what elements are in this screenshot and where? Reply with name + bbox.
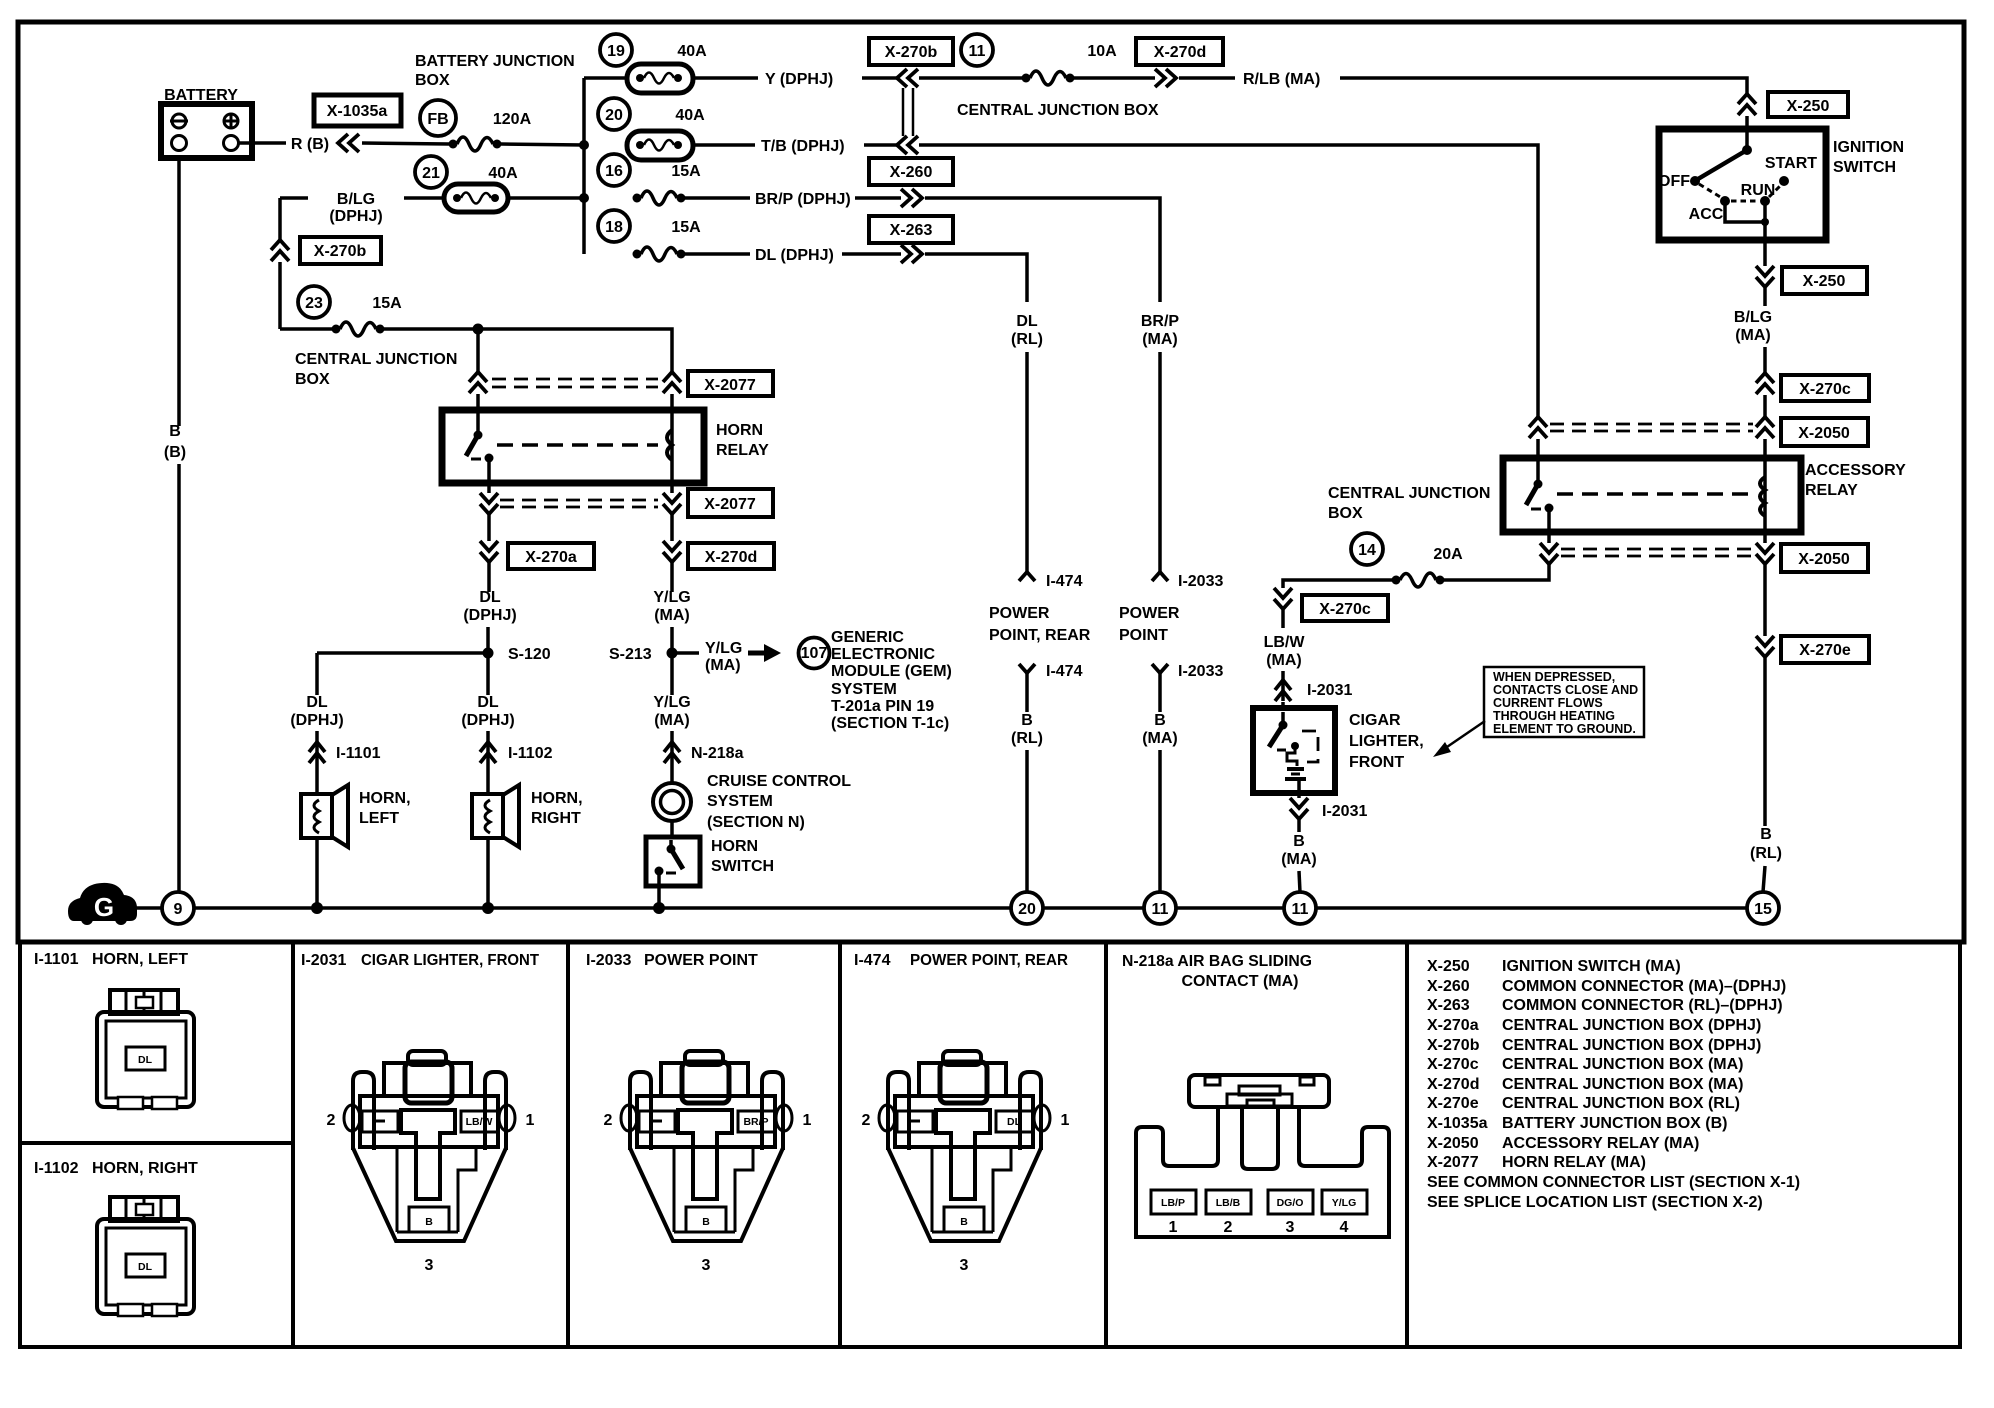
- svg-text:BOX: BOX: [415, 72, 450, 89]
- svg-text:T-201a PIN 19: T-201a PIN 19: [831, 698, 934, 715]
- horn switch: [646, 837, 774, 886]
- connector I-1101 face view: [97, 990, 194, 1109]
- wire horn right column: [486, 656, 490, 695]
- wire: [1763, 347, 1767, 373]
- wire: [685, 252, 750, 256]
- connector fork I-474 upper: [1019, 572, 1083, 590]
- svg-text:SEE SPLICE LOCATION LIST (SECT: SEE SPLICE LOCATION LIST (SECTION X-2): [1427, 1194, 1763, 1211]
- svg-text:(MA): (MA): [654, 712, 690, 729]
- wire: [670, 627, 674, 650]
- svg-text:GENERIC: GENERIC: [831, 629, 904, 646]
- connector chevron X-250 top: [1738, 94, 1756, 115]
- connector box X-250 top: [1768, 92, 1848, 117]
- svg-text:X-270c: X-270c: [1319, 601, 1371, 618]
- svg-text:IGNITION SWITCH (MA): IGNITION SWITCH (MA): [1502, 958, 1681, 975]
- wire: [315, 731, 319, 794]
- ground bus wire: [133, 906, 162, 910]
- connector chevron I-1101: [309, 742, 381, 763]
- svg-text:11: 11: [1292, 901, 1309, 918]
- svg-text:RUN: RUN: [1741, 182, 1776, 199]
- junction on ground bus: [653, 902, 665, 914]
- table divider lines: [291, 942, 295, 1347]
- connector chevron I-2031 upper: [1275, 680, 1352, 701]
- svg-text:20: 20: [1018, 901, 1036, 918]
- svg-text:X-270e: X-270e: [1799, 642, 1851, 659]
- connector box X-260: [869, 158, 953, 185]
- svg-text:X-260: X-260: [890, 164, 933, 181]
- svg-text:HORN,: HORN,: [359, 790, 411, 807]
- svg-text:LEFT: LEFT: [359, 810, 399, 827]
- connector I-474 face view: [862, 1051, 1070, 1274]
- fuse 23 circle: [298, 286, 330, 318]
- connector box X-250 mid: [1782, 267, 1867, 294]
- svg-text:BOX: BOX: [1328, 505, 1363, 522]
- cigar lighter internals: [1269, 712, 1318, 791]
- svg-text:DL: DL: [306, 694, 328, 711]
- svg-text:(DPHJ): (DPHJ): [290, 712, 343, 729]
- svg-text:I-474: I-474: [1046, 573, 1083, 590]
- svg-text:23: 23: [305, 295, 323, 312]
- horn relay coil: [667, 413, 672, 480]
- svg-text:SYSTEM: SYSTEM: [707, 793, 773, 810]
- net label DL (DPHJ): [463, 589, 516, 624]
- wire below cigar lighter: [1297, 793, 1301, 798]
- net label B/LG (MA): [1734, 309, 1772, 344]
- wire: [670, 731, 674, 784]
- connector box X-270d mid: [688, 543, 774, 569]
- svg-text:S-120: S-120: [508, 646, 551, 663]
- horn relay control dashed line: [497, 443, 658, 447]
- ground bus wire: [1176, 906, 1284, 910]
- wire horn switch column: [670, 656, 674, 695]
- GEM system text: [831, 629, 952, 732]
- fuse 19 circle: [600, 34, 632, 66]
- svg-text:3: 3: [1286, 1219, 1295, 1236]
- note box when depressed: [1484, 667, 1644, 737]
- connector chevron X-270d mid: [663, 541, 681, 562]
- svg-text:ACCESSORY: ACCESSORY: [1805, 462, 1906, 479]
- svg-text:CENTRAL JUNCTION BOX (RL): CENTRAL JUNCTION BOX (RL): [1502, 1095, 1740, 1112]
- fuse 11 element: [1022, 71, 1075, 85]
- svg-text:CIGAR: CIGAR: [1349, 712, 1401, 729]
- fuse 18 circle: [598, 210, 630, 242]
- wire: [486, 731, 490, 794]
- wire to ignition switch: [1340, 78, 1747, 94]
- ground bus wire: [194, 906, 1011, 910]
- connector chevron X-250 bottom: [1756, 266, 1774, 287]
- svg-text:18: 18: [605, 219, 623, 236]
- wire below ignition: [1763, 240, 1767, 266]
- svg-text:20A: 20A: [1433, 546, 1463, 563]
- svg-text:X-270e: X-270e: [1427, 1095, 1479, 1112]
- connector chevron X-263: [901, 245, 922, 263]
- svg-text:MODULE (GEM): MODULE (GEM): [831, 663, 952, 680]
- svg-text:RELAY: RELAY: [1805, 482, 1858, 499]
- svg-text:LB/W: LB/W: [1264, 634, 1306, 651]
- svg-text:11: 11: [969, 43, 986, 60]
- connector chevron X-2050 upper left: [1529, 417, 1547, 438]
- svg-text:X-250: X-250: [1803, 273, 1846, 290]
- ground bus wire: [1316, 906, 1747, 910]
- connector box X-270a: [508, 543, 594, 569]
- svg-text:ACCESSORY RELAY (MA): ACCESSORY RELAY (MA): [1502, 1135, 1699, 1152]
- wire: [1179, 76, 1235, 80]
- accessory relay U2: [1503, 458, 1906, 532]
- svg-text:X-2077: X-2077: [1427, 1154, 1479, 1171]
- note arrow: [1433, 721, 1485, 757]
- net label B (MA) cigar: [1281, 833, 1317, 868]
- svg-text:X-263: X-263: [890, 222, 933, 239]
- connector chevron X-2050 upper right: [1756, 417, 1774, 438]
- wire to cigar lighter column: [1283, 580, 1392, 588]
- fuse 18 element: [633, 247, 686, 261]
- svg-text:I-2031: I-2031: [1307, 682, 1352, 699]
- wire: [685, 196, 750, 200]
- wire: [1158, 750, 1162, 892]
- svg-text:X-270a: X-270a: [525, 549, 577, 566]
- net label LB/W (MA): [1264, 634, 1306, 669]
- wire to ground bus: [315, 838, 319, 905]
- svg-text:11: 11: [1152, 901, 1169, 918]
- svg-text:ELEMENT TO GROUND.: ELEMENT TO GROUND.: [1493, 722, 1636, 736]
- arrow to GEM: [748, 644, 781, 662]
- svg-text:(MA): (MA): [1142, 730, 1178, 747]
- svg-text:X-260: X-260: [1427, 978, 1470, 995]
- svg-text:X-250: X-250: [1427, 958, 1470, 975]
- svg-text:107: 107: [801, 645, 828, 662]
- svg-text:HORN RELAY (MA): HORN RELAY (MA): [1502, 1154, 1646, 1171]
- svg-text:Y/LG: Y/LG: [653, 694, 690, 711]
- svg-text:15A: 15A: [671, 163, 701, 180]
- connector box X-270e: [1781, 636, 1869, 663]
- svg-text:HORN: HORN: [716, 422, 763, 439]
- wire: [862, 76, 897, 80]
- connector box X-2050 upper: [1781, 418, 1868, 446]
- svg-text:X-1035a: X-1035a: [327, 103, 388, 120]
- svg-text:X-270d: X-270d: [705, 549, 757, 566]
- connector I-1102 face view: [97, 1197, 194, 1316]
- svg-text:X-2077: X-2077: [704, 496, 756, 513]
- svg-text:DL: DL: [138, 1261, 153, 1273]
- wire B/LG down to fuse 23: [278, 198, 282, 240]
- svg-text:120A: 120A: [493, 111, 532, 128]
- svg-text:CRUISE CONTROL: CRUISE CONTROL: [707, 773, 851, 790]
- svg-text:(DPHJ): (DPHJ): [463, 607, 516, 624]
- svg-text:POWER POINT, REAR: POWER POINT, REAR: [910, 952, 1068, 969]
- svg-text:(B): (B): [164, 444, 186, 461]
- svg-text:10A: 10A: [1087, 43, 1117, 60]
- svg-text:BATTERY JUNCTION: BATTERY JUNCTION: [415, 53, 575, 70]
- svg-text:IGNITION: IGNITION: [1833, 139, 1904, 156]
- wires into accessory relay: [1536, 439, 1540, 460]
- svg-text:R/LB (MA): R/LB (MA): [1243, 71, 1320, 88]
- svg-text:CENTRAL JUNCTION BOX (DPHJ): CENTRAL JUNCTION BOX (DPHJ): [1502, 1037, 1761, 1054]
- wire: [1281, 702, 1285, 710]
- svg-text:B/LG: B/LG: [337, 191, 375, 208]
- svg-text:X-270d: X-270d: [1154, 44, 1206, 61]
- svg-text:40A: 40A: [675, 107, 705, 124]
- fuse 20 circle: [598, 98, 630, 130]
- svg-text:SWITCH: SWITCH: [1833, 159, 1896, 176]
- svg-text:CONTACTS CLOSE AND: CONTACTS CLOSE AND: [1493, 683, 1638, 697]
- svg-text:DL (DPHJ): DL (DPHJ): [755, 247, 834, 264]
- svg-text:T/B (DPHJ): T/B (DPHJ): [761, 138, 845, 155]
- connector I-2031 face view: [327, 1051, 535, 1274]
- wire: [842, 252, 901, 256]
- net label DL (DPHJ) left: [290, 694, 343, 729]
- connector box X-2050 lower: [1781, 544, 1868, 572]
- svg-text:X-270a: X-270a: [1427, 1017, 1479, 1034]
- wire right pin down: [1763, 565, 1767, 636]
- accessory relay control dashed line: [1557, 492, 1752, 496]
- fuse 16 element: [633, 191, 686, 205]
- wire: [1763, 395, 1767, 417]
- wire to bus: [508, 196, 584, 200]
- svg-text:1: 1: [1169, 1219, 1178, 1236]
- connector chevron X-270c right: [1756, 373, 1774, 394]
- svg-text:COMMON CONNECTOR (RL)–(DPHJ): COMMON CONNECTOR (RL)–(DPHJ): [1502, 997, 1783, 1014]
- net label B/LG (DPHJ): [329, 191, 382, 225]
- bottom table frame: [20, 942, 1960, 1347]
- svg-text:SEE COMMON CONNECTOR LIST (SEC: SEE COMMON CONNECTOR LIST (SECTION X-1): [1427, 1174, 1800, 1191]
- ignition switch: [1659, 129, 1904, 240]
- connector chevron X-270b row T/B: [897, 136, 918, 154]
- connector chevron N-218a: [664, 742, 744, 763]
- wire horn relay left pin up: [476, 329, 480, 372]
- svg-text:I-2031: I-2031: [1322, 803, 1367, 820]
- fuse 19 capsule: [627, 64, 693, 93]
- connector box X-1035a: [314, 95, 401, 126]
- svg-text:LB/P: LB/P: [1161, 1197, 1185, 1209]
- svg-text:CENTRAL JUNCTION: CENTRAL JUNCTION: [1328, 485, 1490, 502]
- svg-text:START: START: [1765, 155, 1817, 172]
- cell header I-1101 HORN, LEFT: [34, 951, 188, 968]
- svg-text:(MA): (MA): [1281, 851, 1317, 868]
- net label Y/LG (MA) stub: [705, 640, 742, 674]
- svg-text:DL: DL: [1016, 313, 1038, 330]
- power point rear component label: [989, 605, 1091, 644]
- ignition switch internals: [1658, 133, 1817, 240]
- svg-text:DL: DL: [479, 589, 501, 606]
- ground reference circle 20: [1011, 892, 1043, 924]
- connector tie dashes X-2050 lower: [1561, 548, 1753, 551]
- svg-text:ELECTRONIC: ELECTRONIC: [831, 646, 935, 663]
- wire DL to power point rear column: [925, 254, 1027, 302]
- connector I-2033 face view: [604, 1051, 812, 1274]
- svg-text:I-2033: I-2033: [586, 952, 631, 969]
- ground reference circle 11 second: [1284, 892, 1316, 924]
- net label DL (DPHJ) right: [461, 694, 514, 729]
- connector tie lines X-270b: [902, 88, 905, 136]
- wire row Y: [584, 76, 627, 80]
- svg-text:G: G: [94, 892, 114, 922]
- svg-text:CENTRAL JUNCTION: CENTRAL JUNCTION: [295, 351, 457, 368]
- fuse 21 capsule: [444, 184, 508, 212]
- svg-text:HORN, LEFT: HORN, LEFT: [92, 951, 188, 968]
- svg-text:(SECTION T-1c): (SECTION T-1c): [831, 715, 949, 732]
- net label Y/LG (MA): [653, 589, 690, 624]
- svg-text:CENTRAL JUNCTION BOX (MA): CENTRAL JUNCTION BOX (MA): [1502, 1076, 1743, 1093]
- svg-text:OFF: OFF: [1658, 173, 1690, 190]
- wire: [670, 821, 674, 839]
- wire B/LG corner: [280, 196, 308, 200]
- svg-text:B: B: [1021, 712, 1033, 729]
- connector box X-2077 lower: [688, 489, 773, 517]
- connector chevron X-270e: [1756, 636, 1774, 657]
- junction on ground bus: [482, 902, 494, 914]
- svg-text:Y/LG: Y/LG: [1332, 1197, 1357, 1209]
- wires down: [487, 514, 491, 541]
- accessory relay coil: [1760, 461, 1765, 529]
- accessory relay internal switch: [1526, 461, 1554, 513]
- wire: [278, 262, 282, 329]
- wire: [693, 76, 758, 80]
- svg-text:LB/B: LB/B: [1216, 1197, 1241, 1209]
- wire T/B to accessory relay: [919, 145, 1538, 417]
- svg-text:RIGHT: RIGHT: [531, 810, 581, 827]
- connector chevron I-1102: [480, 742, 553, 763]
- wire B (B) from battery down to ground bus: [164, 158, 186, 892]
- svg-text:X-2077: X-2077: [704, 377, 756, 394]
- battery: [161, 87, 252, 158]
- svg-text:POWER: POWER: [1119, 605, 1180, 622]
- svg-text:B: B: [1154, 712, 1166, 729]
- svg-text:Y/LG: Y/LG: [705, 640, 742, 657]
- connector chevron X-2077 upper right: [663, 372, 681, 393]
- wire to ground bus: [657, 871, 661, 905]
- connector box X-270c right: [1781, 375, 1869, 401]
- connector chevron X-270b left: [271, 240, 289, 261]
- svg-text:DG/O: DG/O: [1277, 1197, 1304, 1209]
- wire: [362, 143, 449, 144]
- svg-text:POINT, REAR: POINT, REAR: [989, 627, 1091, 644]
- svg-text:X-270b: X-270b: [314, 243, 367, 260]
- cell header N-218a AIR BAG SLIDING CONTACT (MA): [1122, 953, 1312, 990]
- svg-text:THROUGH HEATING: THROUGH HEATING: [1493, 709, 1615, 723]
- wire: [1025, 673, 1029, 712]
- svg-text:SYSTEM: SYSTEM: [831, 681, 897, 698]
- air bag sliding contact rings: [653, 783, 691, 821]
- svg-text:X-1035a: X-1035a: [1427, 1115, 1488, 1132]
- ground symbol G: [68, 883, 137, 925]
- svg-text:N-218a: N-218a: [691, 745, 744, 762]
- legend connector list: [1427, 958, 1800, 1211]
- connector chevron X-270a: [480, 541, 498, 562]
- central junction box label left: [295, 351, 457, 388]
- stub wire to GEM: [677, 651, 699, 655]
- connector box X-270c cigar: [1302, 595, 1388, 621]
- horn relay U1: [442, 410, 769, 483]
- svg-text:16: 16: [605, 163, 623, 180]
- svg-text:(MA): (MA): [705, 657, 741, 674]
- svg-text:CONTACT (MA): CONTACT (MA): [1181, 973, 1298, 990]
- wire: [486, 627, 490, 650]
- svg-text:2: 2: [1224, 1219, 1233, 1236]
- fuse 23 element row: [280, 322, 668, 336]
- net label Y/LG (MA) lower: [653, 694, 690, 729]
- connector fork I-2033 upper: [1152, 572, 1223, 590]
- svg-text:FB: FB: [427, 111, 448, 128]
- svg-text:DL: DL: [1007, 1116, 1022, 1128]
- svg-text:SWITCH: SWITCH: [711, 858, 774, 875]
- central junction box label right: [1328, 485, 1490, 522]
- svg-text:40A: 40A: [488, 165, 518, 182]
- svg-text:CENTRAL JUNCTION BOX (DPHJ): CENTRAL JUNCTION BOX (DPHJ): [1502, 1017, 1761, 1034]
- fuse 14 circle: [1351, 533, 1383, 565]
- svg-text:(DPHJ): (DPHJ): [461, 712, 514, 729]
- connector chevron I-2031 lower: [1290, 798, 1367, 820]
- svg-text:(MA): (MA): [654, 607, 690, 624]
- svg-text:I-2033: I-2033: [1178, 663, 1223, 680]
- ground bus wire: [1043, 906, 1144, 910]
- wire: [1763, 658, 1767, 826]
- connector chevron X-2050 lower left: [1540, 543, 1558, 564]
- splice S-213: [609, 646, 678, 663]
- wire from relay output to fuse 14: [1444, 564, 1549, 580]
- svg-text:14: 14: [1358, 542, 1376, 559]
- connector chevron right: [1155, 69, 1176, 87]
- svg-text:(MA): (MA): [1266, 652, 1302, 669]
- svg-text:15A: 15A: [372, 295, 402, 312]
- svg-text:X-270b: X-270b: [885, 44, 938, 61]
- svg-text:I-474: I-474: [1046, 663, 1083, 680]
- svg-text:X-270c: X-270c: [1427, 1056, 1479, 1073]
- svg-text:DL: DL: [138, 1054, 153, 1066]
- svg-text:Y (DPHJ): Y (DPHJ): [765, 71, 833, 88]
- connector fork I-474 lower: [1019, 663, 1083, 680]
- connector tie dashes X-2077 lower: [500, 499, 658, 502]
- svg-text:B/LG: B/LG: [1734, 309, 1772, 326]
- fuse 14 element: [1392, 573, 1445, 587]
- connector box X-270d top: [1136, 38, 1223, 65]
- pin numbers N-218a: [1169, 1219, 1349, 1236]
- wire to bus: [501, 144, 584, 145]
- ground reference circle 9: [162, 892, 194, 924]
- wire: [919, 76, 1022, 80]
- cell header I-474 POWER POINT, REAR: [854, 952, 1068, 969]
- svg-text:BR/P: BR/P: [743, 1116, 768, 1128]
- power point component label: [1119, 605, 1180, 644]
- wire: [1025, 750, 1029, 892]
- cruise control system text: [707, 773, 851, 831]
- wire: [864, 143, 897, 147]
- svg-text:(RL): (RL): [1011, 331, 1043, 348]
- svg-text:B: B: [1760, 826, 1772, 843]
- GEM reference circle 107: [799, 638, 830, 669]
- junction node on fuse 23 wire: [473, 324, 484, 335]
- svg-text:POWER POINT: POWER POINT: [644, 952, 758, 969]
- wire: [1158, 673, 1162, 712]
- connector N-218a face view: [1136, 1075, 1389, 1237]
- connector chevron X-2077 upper left: [469, 372, 487, 393]
- cigar lighter front: [1253, 708, 1424, 793]
- net label B (RL) right: [1750, 826, 1782, 862]
- wire DL column below relay: [487, 562, 491, 592]
- connector chevron X-2050 lower right: [1756, 543, 1774, 564]
- net label B (MA): [1142, 712, 1178, 747]
- wire to ground bus: [486, 838, 490, 905]
- svg-text:20: 20: [605, 107, 623, 124]
- svg-text:FRONT: FRONT: [1349, 754, 1404, 771]
- svg-text:CURRENT FLOWS: CURRENT FLOWS: [1493, 696, 1603, 710]
- svg-text:19: 19: [607, 43, 625, 60]
- svg-text:(DPHJ): (DPHJ): [329, 208, 382, 225]
- wires into horn relay: [476, 394, 480, 412]
- svg-text:4: 4: [1340, 1219, 1349, 1236]
- svg-text:RELAY: RELAY: [716, 442, 769, 459]
- svg-text:WHEN DEPRESSED,: WHEN DEPRESSED,: [1493, 670, 1615, 684]
- connector box X-270b left: [300, 237, 381, 264]
